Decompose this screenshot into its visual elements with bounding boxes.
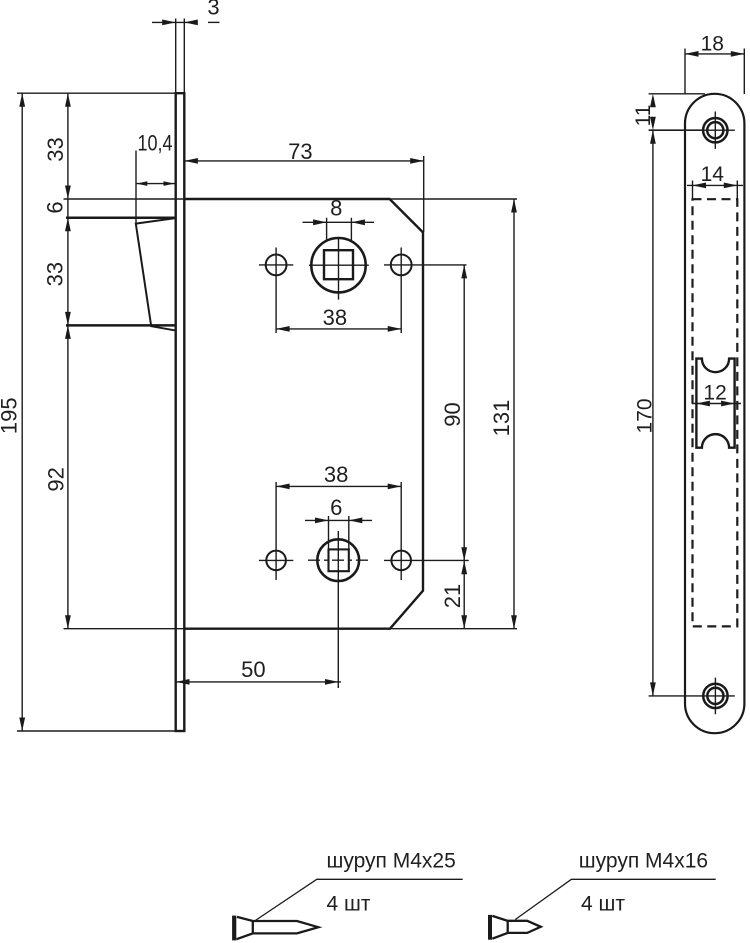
lock case outline [184, 199, 423, 629]
arrow up at 93 [65, 93, 71, 107]
dim 18 extension lines [685, 49, 744, 95]
svg-text:90: 90 [440, 402, 465, 426]
dim 90 line [463, 265, 465, 561]
faceplate thickness extension lines [176, 19, 185, 94]
svg-text:195: 195 [0, 397, 21, 434]
svg-text:6: 6 [42, 201, 67, 213]
dim 10,4 line [136, 183, 174, 185]
dim 195 line [21, 93, 23, 731]
dim 8 line [303, 221, 375, 223]
svg-text:10,4: 10,4 [138, 131, 173, 156]
dim 14 extension lines [693, 181, 738, 200]
strike screw hole bottom crosshair [649, 678, 735, 715]
svg-text:92: 92 [44, 467, 69, 491]
svg-text:8: 8 [330, 195, 342, 220]
svg-text:14: 14 [701, 163, 725, 186]
hole top-right circle [391, 255, 412, 276]
dim 14 line [687, 184, 743, 186]
latch bolt bevel outline [136, 218, 175, 330]
dim 170 top arrow [650, 130, 656, 144]
screw M4x16 body [492, 916, 541, 939]
leader M4x25 [252, 879, 462, 922]
svg-text:18: 18 [701, 33, 724, 56]
svg-text:73: 73 [288, 139, 312, 164]
dim 12 line [692, 403, 741, 405]
dim 73 line [184, 160, 423, 162]
dim 8 extension lines [327, 218, 352, 241]
dim 131 line [513, 199, 515, 629]
screw M4x25 shank line [252, 921, 254, 934]
latch bolt top edge [66, 217, 175, 220]
hole bottom-left crosshair [259, 482, 293, 580]
arrow up at 325.4 [65, 325, 71, 339]
extension line bottom of faceplate [17, 730, 176, 732]
svg-text:33: 33 [43, 262, 68, 286]
hole bottom-left circle [266, 551, 286, 571]
hole top-left circle [266, 255, 287, 276]
svg-text:170: 170 [634, 398, 657, 433]
hub bottom square [329, 549, 349, 571]
hole top-left crosshair [259, 248, 293, 334]
svg-text:шуруп M4x25: шуруп M4x25 [327, 850, 456, 873]
dim 6 bottom extension lines [329, 516, 349, 549]
hub top square [324, 250, 353, 279]
dim 18 arrows [685, 51, 699, 57]
strike screw hole top crosshair [649, 129, 704, 131]
strike dashed pocket [693, 199, 738, 626]
hub top circle [311, 238, 365, 292]
dim 6 bottom arrows [315, 518, 329, 524]
dim 73 extension line [423, 156, 425, 232]
strike screw hole top [703, 118, 727, 142]
hole top-right crosshair [384, 248, 467, 334]
svg-text:50: 50 [241, 657, 265, 682]
arrow up at 217.8 [65, 218, 71, 232]
screw M4x25 body [237, 917, 319, 939]
dim 73 arrows [184, 158, 198, 164]
dim 50 line [176, 681, 341, 683]
dim 12 arrows [696, 401, 710, 407]
svg-text:131: 131 [489, 400, 514, 437]
dim 6 bottom line [305, 519, 372, 521]
dim 38 top line [276, 328, 401, 330]
svg-text:6: 6 [330, 495, 342, 520]
dim 38 bottom arrows [276, 484, 290, 490]
svg-text:4 шт: 4 шт [581, 893, 625, 916]
svg-text:38: 38 [324, 462, 348, 487]
hub top crosshair [309, 238, 369, 300]
screw M4x16 shank line [507, 921, 509, 933]
svg-text:12: 12 [703, 382, 726, 405]
arrow down at 628.7 [65, 615, 71, 629]
dim 3 arrows [162, 20, 176, 26]
dim 21 arrows [461, 561, 467, 575]
dim 170 bottom arrow [650, 682, 656, 696]
svg-text:шуруп M4x16: шуруп M4x16 [579, 850, 708, 873]
hole bottom-right crosshair [384, 482, 469, 580]
screw M4x16 head [488, 915, 492, 940]
svg-text:11: 11 [632, 105, 655, 127]
extension line case top [64, 198, 518, 200]
svg-text:3: 3 [207, 0, 219, 20]
dim 10,4 arrows [136, 181, 147, 186]
extension line case bottom [64, 628, 518, 630]
faceplate [176, 93, 185, 731]
svg-text:38: 38 [323, 305, 347, 330]
strike latch cutout [696, 359, 734, 448]
extension line top of faceplate [17, 92, 176, 94]
dim 38 bottom line [276, 485, 401, 487]
dim 50 arrows [176, 679, 190, 685]
hole bottom-right circle [391, 551, 411, 571]
leader M4x16 [515, 879, 715, 919]
svg-text:4 шт: 4 шт [327, 893, 371, 916]
dim 11 arrows [650, 94, 656, 108]
hub bottom vertical centerline [337, 531, 339, 688]
hub bottom crosshair dashed [308, 559, 371, 561]
dim 14 arrows [693, 183, 707, 189]
svg-text:33: 33 [43, 137, 68, 161]
dim 21 line [463, 561, 465, 629]
strike plate outline [685, 94, 744, 733]
dim 170 line [652, 130, 654, 696]
svg-text:21: 21 [440, 584, 465, 608]
latch bolt bottom edge [66, 324, 175, 327]
hub bottom circle [317, 539, 359, 581]
screw M4x25 head [232, 916, 236, 941]
dim 3 line [152, 21, 198, 23]
arrow down at 199 [65, 186, 71, 200]
dim 11 extension line [649, 93, 705, 95]
dim 195 arrows [19, 93, 25, 107]
arrow down at 325.4 [65, 312, 71, 326]
left dim stack line [67, 93, 69, 629]
dim 10,4 extension line [135, 151, 137, 224]
dim 90 arrows [461, 265, 467, 279]
dim 18 line [685, 53, 744, 55]
dim 8 arrows [313, 219, 327, 225]
dim 131 arrows [511, 199, 517, 213]
strike screw hole bottom [703, 684, 727, 708]
dim 38 top arrows [276, 326, 290, 332]
